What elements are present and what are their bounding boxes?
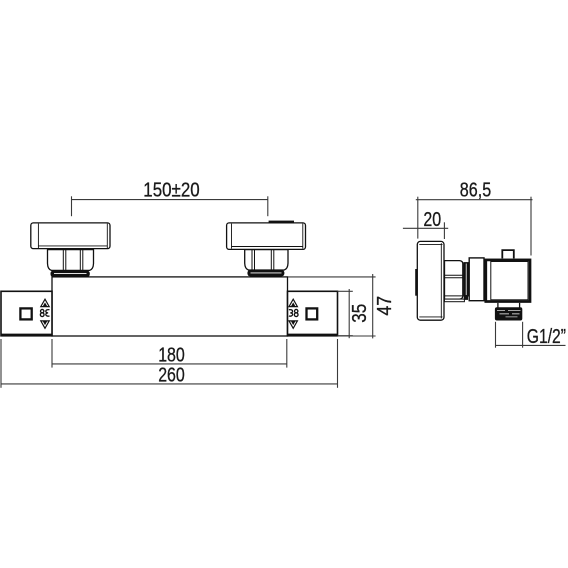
dimension 35 extension line bottom xyxy=(338,335,353,337)
dimension G1/2 extension line right xyxy=(522,322,524,348)
dimension 260 extension line left xyxy=(0,339,2,388)
svg-text:86,5: 86,5 xyxy=(460,179,491,201)
right hex nut xyxy=(245,250,288,270)
dimension 86,5 extension line right xyxy=(530,197,532,256)
svg-text:150±20: 150±20 xyxy=(143,179,199,201)
wall plate left tab xyxy=(415,269,417,296)
dimension 35 line xyxy=(348,289,350,338)
outlet neck xyxy=(498,303,520,308)
dimension 180 extension line left xyxy=(51,339,53,368)
dimension 260 extension line right xyxy=(337,339,339,388)
dimension 260 line xyxy=(1,383,338,385)
dimension G1/2 line xyxy=(496,344,566,346)
left handle up arrow xyxy=(41,299,49,306)
knurled outlet ring xyxy=(495,307,522,320)
dimension 150±20 extension line right xyxy=(267,196,269,216)
mixer body xyxy=(52,277,288,336)
dimension 180 line xyxy=(52,363,287,365)
dimension 47 line xyxy=(372,274,374,338)
dimension G1/2 extension line left xyxy=(495,322,497,348)
left escutcheon block xyxy=(31,223,110,249)
main square body xyxy=(486,260,530,302)
left hex nut xyxy=(48,250,94,271)
dimension 86,5 line xyxy=(416,199,533,201)
right escutcheon block xyxy=(227,223,306,250)
svg-text:47: 47 xyxy=(374,296,396,316)
dimension 47 extension line bottom xyxy=(338,335,376,337)
right handle up arrow xyxy=(289,299,297,306)
left seal ring xyxy=(51,270,90,277)
dimension 47 extension line top xyxy=(288,276,376,278)
valve rear block xyxy=(469,258,484,301)
dimension 86,5 extension line left xyxy=(417,197,419,239)
dimension 35 extension line top xyxy=(338,290,353,292)
right handle block xyxy=(288,291,338,336)
right handle down arrow xyxy=(289,321,297,328)
top tab button xyxy=(502,250,514,258)
right handle 38 label xyxy=(289,309,298,316)
side hex nut xyxy=(445,261,465,302)
right seal ring xyxy=(247,270,284,277)
left handle block xyxy=(1,291,52,336)
dimension 150±20 extension line left xyxy=(71,196,73,216)
right handle square button xyxy=(307,308,318,319)
svg-text:180: 180 xyxy=(158,344,185,366)
side seal ring xyxy=(463,262,468,300)
left handle down arrow xyxy=(41,321,49,328)
dimension 180 extension line right xyxy=(286,339,288,368)
dimension 20 line xyxy=(403,227,448,229)
svg-text:35: 35 xyxy=(349,304,371,323)
wall plate xyxy=(417,241,444,320)
black cap on right escutcheon xyxy=(269,221,294,224)
svg-text:G1/2”: G1/2” xyxy=(527,326,566,348)
left handle square button xyxy=(20,308,31,319)
svg-text:260: 260 xyxy=(158,365,185,387)
dimension 150±20 line xyxy=(72,199,268,201)
dimension 20 extension line right xyxy=(443,222,445,239)
left handle 38 label (mirrored) xyxy=(40,309,49,316)
